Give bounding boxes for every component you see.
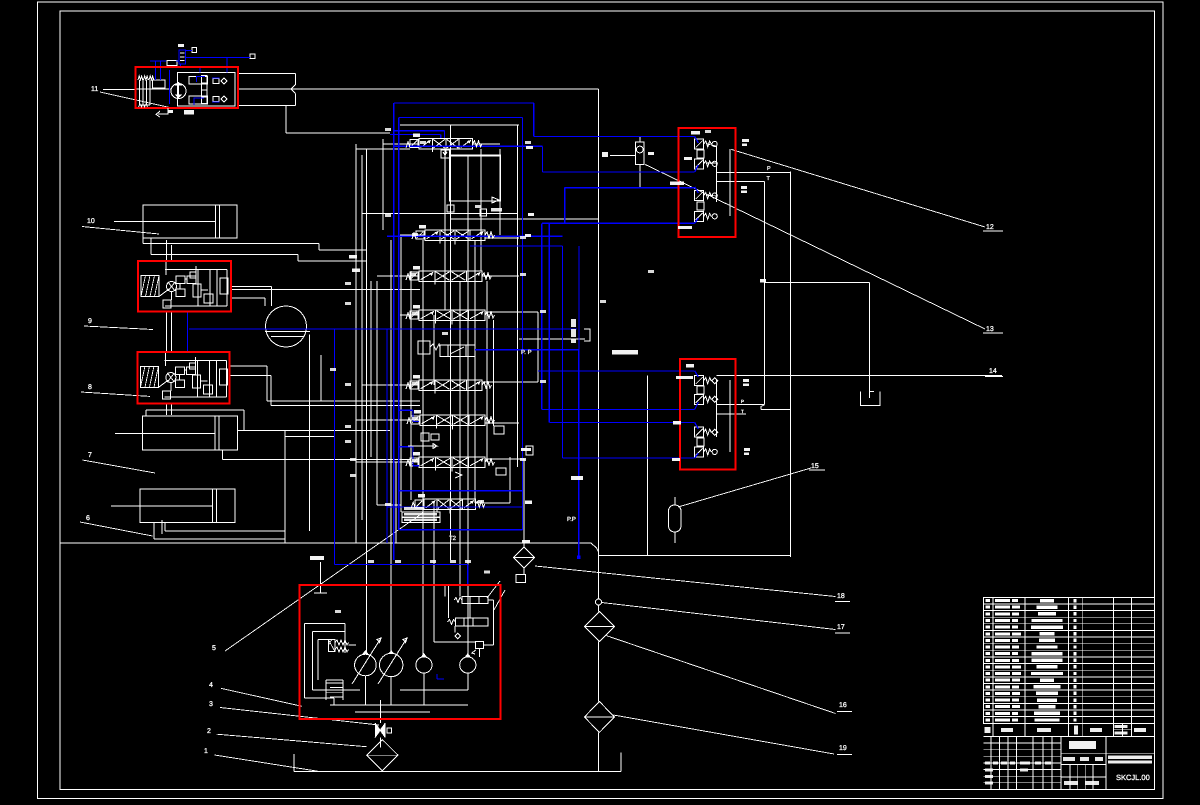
svg-text:12: 12 xyxy=(986,224,994,231)
svg-text:5: 5 xyxy=(212,645,216,652)
svg-text:P: P xyxy=(767,166,771,172)
svg-text:8: 8 xyxy=(88,384,92,391)
svg-text:P. P: P. P xyxy=(521,349,532,356)
svg-text:2: 2 xyxy=(207,728,211,735)
svg-text:15: 15 xyxy=(811,463,819,470)
svg-text:SKCJL.00: SKCJL.00 xyxy=(1116,773,1150,782)
svg-text:14: 14 xyxy=(989,368,997,375)
svg-text:P.P: P.P xyxy=(567,516,576,523)
svg-text:13: 13 xyxy=(986,326,994,333)
svg-text:11: 11 xyxy=(91,86,98,93)
svg-text:T: T xyxy=(741,409,744,414)
svg-text:9: 9 xyxy=(88,318,92,325)
svg-text:1: 1 xyxy=(204,748,208,755)
svg-text:18: 18 xyxy=(837,593,845,600)
svg-text:6: 6 xyxy=(86,515,90,522)
svg-text:19: 19 xyxy=(839,745,847,752)
svg-text:7: 7 xyxy=(88,452,92,459)
svg-text:P: P xyxy=(741,399,744,404)
svg-text:17: 17 xyxy=(837,624,845,631)
svg-text:4: 4 xyxy=(209,682,213,689)
svg-text:16: 16 xyxy=(839,702,847,709)
svg-text:3: 3 xyxy=(209,701,213,708)
svg-text:10: 10 xyxy=(87,218,95,225)
svg-text:T2: T2 xyxy=(449,535,457,542)
